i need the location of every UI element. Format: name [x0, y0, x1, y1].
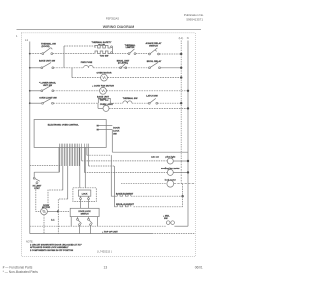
svg-text:* — Non-Illustrated Parts: * — Non-Illustrated Parts — [3, 270, 39, 274]
svg-text:ELECTRONIC OVEN CONTROL: ELECTRONIC OVEN CONTROL — [48, 124, 80, 126]
switch latch 2 below door box — [88, 217, 93, 234]
wire horiz y155 to element1 feed — [87, 154, 111, 156]
svg-text:PWR FUSE: PWR FUSE — [81, 62, 93, 64]
motor lock motor right — [121, 179, 195, 188]
wire pin P2 out — [99, 129, 113, 131]
motor oven motor — [97, 72, 112, 81]
wire row3 to oven motor — [72, 77, 101, 79]
node junction L1 row5 — [180, 102, 182, 104]
svg-text:THERMAL SW: THERMAL SW — [123, 97, 139, 100]
svg-text:SWITCH: SWITCH — [81, 213, 89, 215]
fuse hump row2 — [81, 62, 93, 68]
node junction L1 row1 — [180, 53, 182, 55]
box lock motor inner — [78, 190, 90, 196]
node left bus joints — [29, 53, 31, 55]
connector comb ticks — [60, 144, 89, 148]
switch broil unit sw — [117, 60, 130, 68]
svg-text:VALVE: VALVE — [98, 43, 106, 46]
switch oven light switch — [39, 98, 57, 105]
fuse hump row5 — [123, 97, 139, 103]
svg-text:BROIL RELAY: BROIL RELAY — [147, 60, 162, 63]
header rule — [17, 29, 202, 31]
thermal breaker TOD upper — [92, 41, 112, 48]
svg-text:DOOR: DOOR — [113, 127, 120, 129]
svg-text:SW: SW — [113, 133, 117, 135]
svg-text:auto sw: auto sw — [151, 155, 159, 158]
node conv junction — [57, 210, 59, 212]
wire bake element to junction — [131, 195, 183, 197]
wire left dashed y166 done above; hi-limit branch — [34, 147, 59, 172]
wire row4 stub — [30, 90, 41, 92]
node junction L1 row2 — [180, 67, 182, 69]
svg-text:(2 LEVEL): (2 LEVEL) — [118, 63, 129, 65]
wire horiz y172.4 to cooling fan circle — [84, 171, 166, 173]
wire vertical x64 — [63, 46, 65, 68]
motor convection motor — [41, 205, 51, 215]
svg-text:WIRING DIAGRAM: WIRING DIAGRAM — [103, 25, 135, 29]
svg-text:2 COMPONENTS SHOWN IN OFF PO: 2 COMPONENTS SHOWN IN OFF POSITION — [30, 250, 74, 252]
wire horiz y166 to element2 feed — [89, 165, 115, 167]
wire row5 to L1 bus — [158, 102, 182, 104]
svg-text:L1: L1 — [25, 38, 29, 42]
wire row4 to conv fan motor — [54, 90, 100, 92]
svg-text:N: N — [187, 36, 189, 40]
switch latch switch D — [146, 95, 158, 105]
wire row5 to hump — [110, 102, 123, 104]
wire row1 to switch A — [112, 53, 128, 55]
svg-text:UNIT SW: UNIT SW — [43, 85, 53, 87]
pin P2 square — [97, 129, 99, 131]
wire pin vertical down — [111, 130, 113, 153]
svg-text:OVEN LIGHT SW: OVEN LIGHT SW — [39, 98, 57, 100]
switch latch 1 below door box — [77, 217, 82, 234]
node lock terminals — [80, 198, 82, 200]
switch bake relay B — [146, 42, 162, 55]
svg-text:SWITCH: SWITCH — [149, 45, 158, 47]
thermal breaker TOD lower — [95, 51, 110, 58]
box electronic oven control EOC — [34, 120, 106, 148]
wire broil element to junction — [134, 206, 183, 208]
wire long dashed right y233.6 — [152, 233, 195, 235]
switch broil relay C — [147, 60, 162, 69]
svg-text:5995413571: 5995413571 — [186, 18, 203, 22]
motor cooling fan right — [161, 167, 189, 175]
svg-text:13: 13 — [104, 266, 108, 270]
svg-text:06/01: 06/01 — [195, 266, 203, 270]
wire row1 to L1 bus — [159, 53, 181, 55]
wire row1 to relay switch B — [136, 53, 149, 55]
wire row3 to L1 bus — [107, 77, 181, 79]
heater broil element — [116, 204, 134, 207]
svg-text:# — Functional Parts: # — Functional Parts — [3, 266, 33, 270]
svg-text:LIMITER: LIMITER — [126, 47, 135, 49]
switch thermal limiter A — [125, 44, 136, 55]
dashed border frame — [22, 33, 196, 257]
svg-text:FEF352AS: FEF352AS — [106, 16, 119, 20]
receptacle lock circles — [163, 215, 174, 224]
svg-text:LOCK: LOCK — [82, 194, 88, 196]
wire row2 stub — [30, 67, 41, 69]
svg-text:+ CONV FAN MOTOR: + CONV FAN MOTOR — [92, 84, 114, 87]
svg-text:[ L74Z0215 ]: [ L74Z0215 ] — [97, 250, 112, 254]
wire oven light to N bus — [109, 107, 188, 109]
box door lock switch — [70, 208, 99, 216]
wire row1 to door switch — [30, 53, 42, 55]
wire hi-limit to conv motor — [36, 189, 41, 211]
wire feed to upper breaker — [64, 45, 95, 47]
wire comb bends to left — [48, 190, 63, 207]
svg-text:SW: SW — [164, 218, 168, 220]
wire horiz y160.9 to oven lamp circle — [82, 160, 167, 162]
wire row2 to L1 bus — [160, 67, 181, 69]
node junction N oven light — [187, 107, 189, 109]
svg-text:(L1): (L1) — [179, 36, 184, 40]
wire long solid y233.6 — [30, 233, 152, 235]
wire row5 to switch D — [132, 102, 149, 104]
wire element2 feed vertical — [115, 166, 118, 207]
svg-text:(DOOR): (DOOR) — [42, 46, 50, 48]
wire junction vertical — [182, 196, 184, 207]
node junction element — [181, 195, 183, 197]
wire row4 to N bus — [106, 90, 188, 92]
motor convection fan motor — [92, 84, 114, 100]
wire right L1 bus — [180, 41, 182, 162]
svg-text:1: 1 — [16, 34, 18, 38]
heater bake element — [116, 192, 134, 196]
box lock motor assembly (dashed) — [73, 188, 96, 202]
wire row5 stub — [30, 102, 41, 104]
wire row2 to switch C — [93, 67, 148, 69]
wire element junction up — [182, 184, 184, 197]
wire conv to door box — [58, 210, 70, 212]
svg-text:Publication No.: Publication No. — [184, 13, 204, 17]
wire horiz y166 left to L1 — [30, 165, 61, 167]
node breaker output terminals — [111, 46, 113, 48]
thermal breaker small row5 — [98, 98, 110, 103]
switch lower broil unit switch — [39, 83, 57, 92]
wire lock to door box — [80, 200, 82, 209]
wire door box right down — [97, 217, 99, 227]
wire door box left down — [70, 217, 72, 227]
wire element1 feed vertical — [111, 155, 117, 196]
switch bake unit switch — [39, 60, 56, 69]
pin P1 square — [97, 125, 99, 127]
wire lock circles to N — [174, 225, 188, 227]
wire ribbon verticals below EOC — [60, 147, 89, 199]
node junction N row4 — [187, 90, 189, 92]
svg-text:A-1: A-1 — [51, 218, 55, 221]
svg-text:STAT: STAT — [34, 187, 40, 190]
switch hi-limit thermostat — [33, 172, 42, 190]
wire left L1 vertical bus — [29, 42, 31, 234]
svg-text:NOTE:: NOTE: — [26, 241, 34, 244]
svg-text:1 CIRCUIT SHOWN WITH DOOR UN: 1 CIRCUIT SHOWN WITH DOOR UNLOCKED AT 75… — [30, 244, 82, 247]
wire conv motor right — [47, 210, 58, 212]
wire branch down to oven motor row — [71, 68, 73, 78]
svg-text:+ TOP OF UNIT: + TOP OF UNIT — [102, 231, 118, 233]
svg-text:BAKE UNIT SW: BAKE UNIT SW — [39, 60, 56, 63]
wire right N bus — [187, 41, 189, 227]
wire pin P1 out — [99, 125, 113, 127]
svg-text:TOD SW: TOD SW — [100, 56, 110, 58]
svg-text:LATCH SW: LATCH SW — [146, 95, 158, 98]
wire long dashed y226 — [30, 225, 166, 227]
lamp oven light right — [151, 155, 189, 164]
wire row2 to fuse — [54, 67, 84, 69]
node junction L1 row3 — [180, 76, 182, 78]
wire mid horizontal to N — [112, 151, 188, 153]
switch door switch — [41, 43, 57, 55]
svg-text:LOCK: LOCK — [113, 130, 120, 132]
lamp oven light — [98, 103, 114, 111]
svg-text:APPLIANCE GUARD LOCK ASSEMBLY: APPLIANCE GUARD LOCK ASSEMBLY — [30, 246, 69, 249]
wire row1 dashed to thermal breaker — [53, 53, 95, 55]
wire row5 dashed — [53, 102, 98, 104]
wire conv motor down — [43, 215, 45, 234]
